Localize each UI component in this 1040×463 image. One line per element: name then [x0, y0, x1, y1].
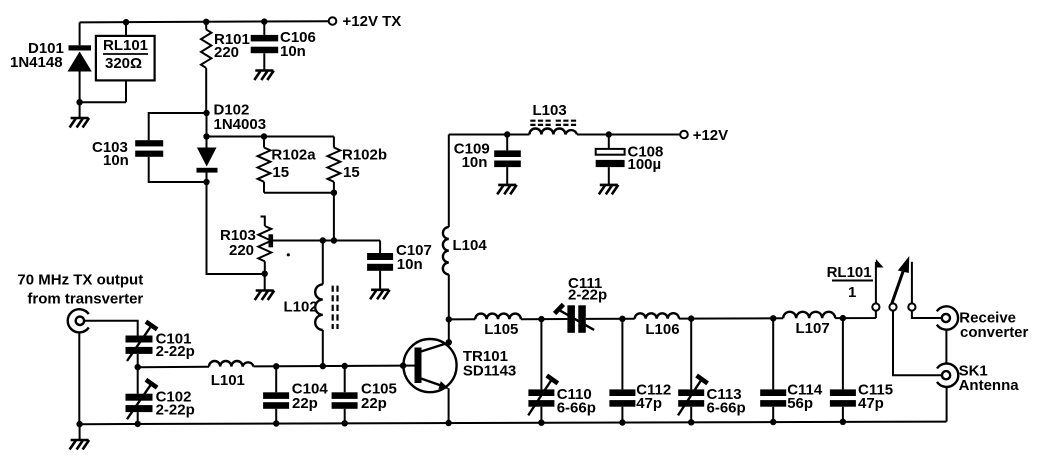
wire R103 to ground [264, 274, 266, 290]
node R103 bottom [262, 271, 268, 277]
terminal +12V TX [329, 17, 337, 25]
wire mid rail [138, 366, 403, 368]
node top rail / C106 [261, 18, 267, 24]
node rail/C108 [606, 131, 612, 137]
wire R102 top branch [207, 136, 334, 138]
inductor L106 [635, 313, 680, 338]
svg-text:R102b: R102b [342, 147, 387, 164]
wire bottom rail [80, 422, 947, 425]
svg-text:6-66p: 6-66p [557, 400, 596, 417]
trimmer capacitor C113 6-66p [678, 319, 746, 423]
node R102 branch [203, 133, 209, 139]
coax socket SK1 antenna [937, 363, 1019, 395]
svg-text:Antenna: Antenna [959, 377, 1020, 394]
trimmer capacitor C111 2-22p series [555, 275, 608, 333]
inductor L105 [475, 314, 521, 338]
capacitor C104 22p [263, 366, 328, 424]
node bias/R102b [331, 237, 337, 243]
capacitor C105 22p [332, 366, 397, 424]
svg-text:15: 15 [343, 164, 360, 181]
flag left contact [876, 259, 884, 268]
node C102 bottom [135, 421, 141, 427]
node C105 bottom [342, 420, 348, 426]
wire pole to SK1 [893, 311, 942, 376]
wire +12V rail [449, 134, 680, 136]
wire D101 anode down to ground [79, 72, 81, 118]
wire connector stem [78, 332, 80, 422]
wire L104 branch [448, 135, 450, 343]
svg-text:1N4003: 1N4003 [214, 116, 267, 133]
diode D102 [197, 148, 218, 173]
svg-text:SD1143: SD1143 [463, 363, 516, 380]
wire R103 wiper bias line [271, 240, 380, 242]
inductor L107 [783, 312, 835, 337]
svg-text:converter: converter [960, 324, 1029, 341]
wire between sockets [945, 330, 947, 364]
ground under C106 [254, 71, 274, 81]
capacitor C114 56p [760, 318, 823, 422]
node R102b bottom [331, 190, 337, 196]
capacitor C107 10n [367, 241, 432, 290]
inductor L103 [529, 102, 577, 135]
svg-text:1N4148: 1N4148 [10, 54, 63, 71]
node bottom rail left end [76, 421, 82, 427]
node mid/C105 [342, 363, 348, 369]
wire right contact to receive [912, 311, 942, 318]
svg-text:320Ω: 320Ω [105, 55, 142, 72]
svg-text:2-22p: 2-22p [156, 343, 195, 360]
svg-text:220: 220 [229, 242, 254, 259]
node D101/RL101 bottom [76, 99, 82, 105]
svg-text:RL101: RL101 [827, 264, 872, 281]
capacitor C109 10n [454, 135, 521, 185]
capacitor C108 100u electrolytic [596, 135, 664, 185]
svg-text:10n: 10n [103, 152, 129, 169]
node base [400, 362, 406, 368]
svg-text:70 MHz TX output: 70 MHz TX output [17, 272, 143, 289]
relay contacts RL101/1 [827, 264, 873, 301]
svg-text:L102: L102 [284, 299, 318, 316]
terminal +12V [680, 131, 688, 139]
node mid/C104 [273, 363, 279, 369]
wiper T-bar R103 [268, 234, 273, 247]
node C103 bottom rejoin [203, 179, 209, 185]
wire C101 bottom [137, 354, 139, 394]
wire bottom rail ground stem [79, 424, 81, 439]
inductor L101 [209, 361, 253, 389]
svg-text:from transverter: from transverter [27, 291, 143, 308]
svg-text:220: 220 [214, 44, 239, 61]
node C110 bottom [538, 420, 544, 426]
relay lever [892, 265, 906, 304]
capacitor C103 10n [92, 139, 163, 169]
svg-text:6-66p: 6-66p [707, 400, 746, 417]
wire C103 branch [149, 113, 207, 182]
ground under C108 [599, 185, 619, 195]
svg-text:+12V: +12V [693, 127, 728, 144]
wire R102 bottom [264, 192, 334, 194]
svg-text:1: 1 [848, 284, 856, 301]
relay fixed contact right [908, 303, 915, 310]
resistor R102b 15 [328, 137, 388, 193]
svg-text:2-22p: 2-22p [156, 402, 195, 419]
inductor L104 [443, 227, 487, 274]
capacitor C112 47p [609, 319, 671, 423]
wire collector rail [449, 311, 876, 320]
wire R102b down to bias line [333, 193, 335, 241]
svg-text:L105: L105 [484, 321, 518, 338]
diode D101 [10, 40, 92, 72]
node C101/C102 [135, 364, 141, 370]
trimmer capacitor C110 6-66p [528, 319, 596, 423]
relay pole contact middle [889, 303, 896, 310]
relay coil RL101 [80, 22, 155, 102]
node emitter bottom [445, 420, 451, 426]
node rail/C109 [504, 131, 510, 137]
lever arrowhead [898, 256, 910, 273]
node rail/C114 [770, 315, 776, 321]
wire top +12V TX rail [80, 21, 329, 22]
node collector [446, 339, 452, 345]
svg-text:56p: 56p [787, 395, 813, 412]
svg-text:R102a: R102a [271, 147, 316, 164]
trimmer capacitor C101 2-22p [126, 322, 195, 361]
svg-text:47p: 47p [858, 395, 884, 412]
svg-text:L101: L101 [211, 372, 245, 389]
node top rail / RL101 [123, 19, 129, 25]
svg-text:10n: 10n [280, 43, 306, 60]
svg-text:22p: 22p [292, 395, 318, 412]
node C114 bottom [770, 419, 776, 425]
node rail/C113 [688, 315, 694, 321]
wire SK1 to bottom rail [946, 387, 948, 422]
svg-text:22p: 22p [361, 395, 387, 412]
node mid/L102 [320, 363, 326, 369]
capacitor C106 10n [251, 22, 316, 71]
trimmer capacitor C102 2-22p [126, 380, 195, 419]
resistor R102a 15 [258, 137, 317, 193]
svg-text:RL101: RL101 [103, 37, 148, 54]
wire D102 vertical [207, 113, 265, 274]
svg-text:10n: 10n [462, 154, 488, 171]
svg-text:L104: L104 [453, 237, 488, 254]
node rail/C115 [840, 315, 846, 321]
node D102 label [203, 110, 209, 116]
node C113 bottom [688, 419, 694, 425]
ground under C109 [497, 185, 517, 195]
svg-text:L103: L103 [533, 102, 567, 119]
svg-text:15: 15 [272, 164, 289, 181]
svg-text:L106: L106 [645, 321, 679, 338]
resistor R101 220 [201, 22, 250, 113]
coax socket receive converter [937, 306, 1029, 341]
wire input from connector [84, 321, 137, 336]
ground bottom left [70, 440, 90, 450]
svg-text:2-22p: 2-22p [568, 287, 607, 304]
resistor R103 220 preset [220, 217, 271, 274]
wire left contact stem [875, 262, 877, 303]
svg-text:+12V TX: +12V TX [343, 13, 402, 30]
svg-text:L107: L107 [796, 320, 830, 337]
node L104 / L105 [446, 316, 452, 322]
svg-text:47p: 47p [636, 395, 662, 412]
svg-text:10n: 10n [397, 256, 423, 273]
ground under D101 [70, 118, 90, 128]
node bias/L102 [320, 237, 326, 243]
wire C102 to bottom rail [137, 412, 139, 424]
svg-text:100µ: 100µ [628, 156, 662, 173]
ground under R103 [255, 291, 275, 301]
node C115 bottom [840, 419, 846, 425]
speck [287, 253, 290, 256]
node top rail / R101 [203, 19, 209, 25]
node R102a top [261, 133, 267, 139]
transistor TR101 SD1143 [403, 339, 516, 423]
coax plug 70MHz input [17, 272, 143, 333]
node C112 bottom [619, 419, 625, 425]
ground under C107 [370, 290, 390, 300]
node rail/C112 [619, 316, 625, 322]
inductor L102 [284, 241, 338, 367]
node C104 bottom [273, 420, 279, 426]
relay fixed contact left [872, 303, 879, 310]
wire right contact stem [911, 262, 913, 304]
wire D101 branch upper [79, 22, 81, 45]
capacitor C115 47p [830, 318, 893, 422]
node rail/C110 [538, 316, 544, 322]
